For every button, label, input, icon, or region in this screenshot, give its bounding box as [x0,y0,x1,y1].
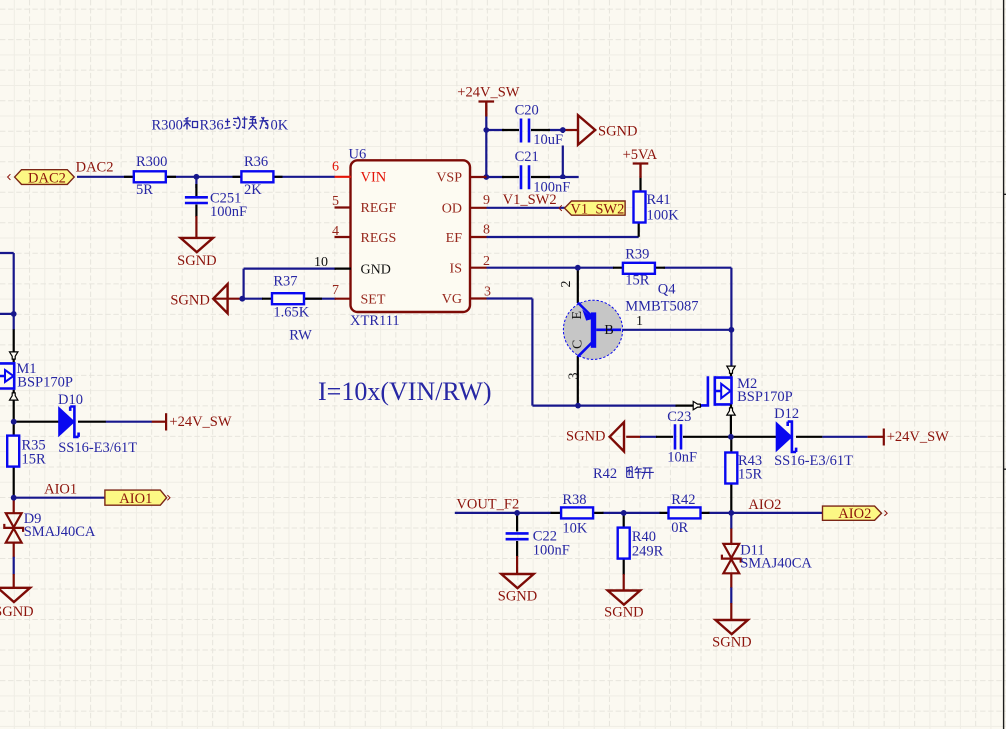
junction at R43 / AIO2 / D11 node [728,510,734,516]
black leads R36 [233,176,283,178]
black leads R38 [551,512,604,514]
C22 leads black [516,513,518,557]
svg-text:V1_SW2: V1_SW2 [503,192,557,208]
junction at D10 anode / M1 [11,419,17,425]
diode D10 schottky [58,406,78,437]
power +5VA bar [633,164,649,179]
svg-text:0K: 0K [271,118,289,134]
wire C20 row y=130 [486,129,563,131]
port V1_SW2 [559,201,625,215]
junction at C22 / VOUT_F2 net [514,510,520,516]
svg-text:249R: 249R [632,544,664,560]
ground SGND below C251 [181,238,213,252]
svg-text:1.65K: 1.65K [273,305,309,321]
svg-text:AIO1: AIO1 [44,482,77,498]
svg-text:SET: SET [361,292,386,307]
svg-text:+5VA: +5VA [623,147,658,163]
svg-text:100nF: 100nF [533,543,570,559]
note R42 broken with CJK [593,466,654,482]
wire C251 branch [195,177,197,188]
svg-text:GND: GND [361,262,391,277]
capacitor C21 [521,165,529,189]
U6 pin 7 (SET) [335,298,352,300]
CJK 开 [641,468,654,479]
junction at Q4 base / M2 drain rail [729,327,735,333]
junction at C251/DAC2 net [194,174,200,180]
transistor Q4 MMBT5087 [563,300,622,359]
wire AIO2 row y=512.9 [455,512,823,514]
svg-text:5R: 5R [136,182,153,198]
svg-text:VG: VG [442,292,462,307]
junction at SET/R37/SGND node [239,296,245,302]
svg-text:8: 8 [483,223,490,238]
wire C21 row y=177 [486,176,578,178]
svg-text:BSP170P: BSP170P [737,389,793,405]
svg-text:SGND: SGND [177,253,216,269]
ground SGND below C22 [501,574,533,588]
svg-text:EF: EF [446,231,463,246]
ground SGND left-arrow at C23 [610,422,624,451]
mosfet M2 gate pin arrow [693,401,700,409]
svg-text:E: E [570,311,585,320]
ground SGND below D9 [0,588,30,602]
U6 pin VSP [470,176,487,178]
U6 pin 6 (VIN) red [335,176,352,178]
svg-text:R300: R300 [136,154,167,170]
R35 leads black [13,422,15,498]
resistor R35 [7,436,19,467]
capacitor C20 [521,119,529,143]
black leads C21 [502,176,550,178]
wire D12/SGND row y=436.8 [626,436,641,438]
svg-text:3: 3 [484,284,491,299]
svg-text:AIO2: AIO2 [838,506,871,522]
svg-text:SGND: SGND [604,604,643,620]
wire VG pin3 to gate of M2 [487,299,677,406]
svg-text:1: 1 [636,314,643,329]
wire D10 row y=421.7 [14,421,59,423]
D9 branch [13,498,15,501]
svg-text:6: 6 [332,160,339,175]
capacitor C22 [506,532,529,535]
svg-text:V1_SW2: V1_SW2 [570,202,624,218]
junction at C21 right [560,174,566,180]
Q4 base wire to M2 drain rail [619,329,731,331]
resistor R41 [634,192,646,223]
black lead C251 bottom + maroon stem to SGND [195,205,197,218]
svg-text:REGS: REGS [361,231,397,246]
power +24V_SW top bar [479,102,495,117]
diode D11 TVS [722,544,741,573]
svg-text:4: 4 [332,224,339,239]
svg-text:2: 2 [483,254,490,269]
wire GND pin10 row [244,269,336,299]
ground SGND below D11 [716,620,748,634]
R43 leads black [730,437,732,513]
M1 vertical rail [13,253,15,330]
sheet border right edge [1004,0,1006,729]
black leads R37 [262,298,322,300]
svg-text:SGND: SGND [598,124,637,140]
svg-text:2: 2 [559,281,574,288]
svg-text:SS16-E3/61T: SS16-E3/61T [58,440,137,456]
svg-text:SMAJ40CA: SMAJ40CA [740,556,812,572]
svg-text:VSP: VSP [436,171,462,186]
svg-text:BSP170P: BSP170P [17,375,73,391]
svg-text:+24V_SW: +24V_SW [169,414,231,430]
svg-text:SS16-E3/61T: SS16-E3/61T [774,453,853,469]
svg-text:R300: R300 [152,118,183,134]
resistor R37 [272,293,304,304]
wire pin9 OD row to V1_SW2 port [487,207,566,209]
R40 top lead black [623,513,625,528]
port AIO2 [823,506,888,520]
junction at Q4 collector / VG net [575,403,581,409]
svg-text:MMBT5087: MMBT5087 [625,299,698,315]
diode D12 schottky [776,421,796,452]
svg-text:SGND: SGND [712,635,751,651]
left edge stub wires [0,253,14,314]
svg-text:5: 5 [332,194,339,209]
U6 pin 8 (EF) [470,236,487,238]
svg-text:10nF: 10nF [667,450,697,466]
ground SGND right-arrow at C20 [578,115,595,145]
svg-text:B: B [604,323,613,338]
svg-text:10K: 10K [562,521,588,537]
U6 pin 9 (OD) [470,207,487,209]
resistor R40 [618,528,630,559]
svg-text:0R: 0R [671,520,688,536]
svg-text:R36: R36 [200,118,224,134]
wire pin2 IS row to Q4/R39/M2 [487,268,732,367]
M2 bottom pin black [730,416,732,437]
resistor R36 [241,171,273,182]
black leads R42 [660,512,710,514]
D11 branch [730,513,732,529]
U6 pin 3 (VG) [470,297,487,299]
vertical wires joining cap rows [486,130,563,177]
junction at Q4 emitter / IS net [575,265,581,271]
resistor R42 [669,507,701,518]
wire SET/R37 row [242,298,336,300]
svg-text:DAC2: DAC2 [28,170,66,186]
svg-text:SGND: SGND [170,293,209,309]
CJK 均 [225,117,241,129]
svg-text:I=10x(VIN/RW): I=10x(VIN/RW) [318,377,492,406]
ground SGND left-arrow at R37 [213,284,227,313]
svg-text:R39: R39 [625,247,649,263]
ground SGND below R40 [608,591,640,605]
power +24V_SW left bar (D10 row) [165,413,167,430]
svg-text:R38: R38 [562,492,586,508]
maroon stem SGND left-arrow R37 [214,298,243,300]
svg-text:DAC2: DAC2 [76,160,114,176]
black gate lead M2 [676,405,703,407]
svg-text:VOUT_F2: VOUT_F2 [456,497,519,513]
svg-text:Q4: Q4 [658,282,676,298]
svg-text:C: C [571,340,586,349]
port AIO1 [105,490,170,505]
svg-text:AIO1: AIO1 [119,491,152,507]
svg-text:RW: RW [289,328,312,344]
wire DAC2 row y=176.8 [77,176,335,178]
CJK 断 [627,466,642,479]
junction at VSP pin / C21 [483,174,489,180]
mosfet M2 top pin arrow [727,366,735,373]
resistor R300 [134,171,166,182]
svg-text:100K: 100K [647,208,680,224]
resistor R39 [623,263,655,274]
svg-text:SGND: SGND [498,589,537,605]
mosfet M2 BSP170P [701,366,732,416]
svg-text:R41: R41 [647,192,671,208]
svg-text:SGND: SGND [0,604,34,620]
junction at M2 source / C23 / D12 [728,434,734,440]
mosfet M1 top pin arrow [10,352,18,359]
resistor R38 [561,507,593,518]
mosfet M2 bottom pin arrow [727,408,735,415]
port DAC2 [8,170,75,185]
U6 pin 2 (IS) [470,267,487,269]
svg-text:+24V_SW: +24V_SW [887,429,949,445]
svg-text:R42: R42 [671,492,695,508]
junction at R35 / AIO1 / D9 node [11,495,17,501]
black leads R39 [613,267,665,269]
svg-text:2K: 2K [244,182,262,198]
R41 top lead: maroon stem from +5VA then black [639,164,641,178]
svg-text:15R: 15R [625,273,650,289]
R40 bottom lead black + SGND [623,559,625,576]
mosfet M1 BSP170P (partially off-sheet) [0,359,15,401]
wire pin8 EF row to R41 [487,236,639,238]
mosfet M1 bottom pin arrow [10,393,18,400]
svg-text:R37: R37 [273,274,297,290]
svg-text:REGF: REGF [361,201,397,216]
svg-text:D12: D12 [774,406,799,422]
black leads C20 [502,129,550,131]
svg-text:C20: C20 [515,103,539,119]
wire AIO1 row y=497.7 [14,497,105,499]
U6 pin 5 (REGF) [335,206,352,208]
CJK 和 [184,118,198,130]
junction at M1 drain rail left [11,311,17,317]
svg-text:7: 7 [332,283,339,298]
wire +24V down to C20 row [485,117,487,131]
svg-text:C23: C23 [667,409,691,425]
maroon stem to SGND right-arrow [563,129,579,131]
power +24V_SW top: stem [485,102,487,118]
svg-text:R36: R36 [244,154,268,170]
svg-text:100nF: 100nF [210,204,247,220]
junction at +24V_SW / C20 [483,127,489,133]
capacitor C251 [185,196,208,199]
svg-text:VIN: VIN [361,170,387,186]
C22 maroon stem to SGND [516,556,518,575]
svg-text:SGND: SGND [566,429,605,445]
U6 pin 10 (GND) black [335,268,352,270]
svg-text:U6: U6 [349,147,367,163]
svg-text:R42: R42 [593,466,617,482]
U6 pin 4 (REGS) [335,236,352,238]
svg-text:IS: IS [450,261,462,276]
resistor R43 [725,453,737,484]
svg-text:3: 3 [567,373,582,380]
Q4 emitter pin black [577,268,579,303]
svg-text:+24V_SW: +24V_SW [457,84,519,100]
diode D9 TVS [4,513,23,542]
svg-text:C21: C21 [515,149,539,165]
CJK 为 [260,117,269,129]
wire R36 to U6 handled above; black leads R300 [124,176,176,178]
svg-text:10: 10 [314,255,328,270]
svg-text:AIO2: AIO2 [748,497,781,513]
svg-text:XTR111: XTR111 [350,313,400,329]
svg-text:15R: 15R [22,452,47,468]
Q4 collector pin black [577,356,579,406]
power +24V_SW right bar (D12 row) [883,429,885,446]
op-amp U6 XTR111 body [351,160,471,312]
capacitor C23 [675,424,681,449]
black lead C251 top [195,184,197,196]
svg-text:9: 9 [483,193,490,208]
svg-text:10uF: 10uF [533,132,563,148]
svg-text:15R: 15R [738,467,763,483]
svg-text:OD: OD [442,201,462,216]
junction at R40 top [621,510,627,516]
note R300/R36 text with CJK [152,117,289,134]
svg-text:D10: D10 [58,392,83,408]
R41 bottom black lead [638,223,640,237]
junction at C20 right / SGND [560,127,566,133]
svg-text:SMAJ40CA: SMAJ40CA [24,524,96,540]
CJK 换 [242,117,257,130]
